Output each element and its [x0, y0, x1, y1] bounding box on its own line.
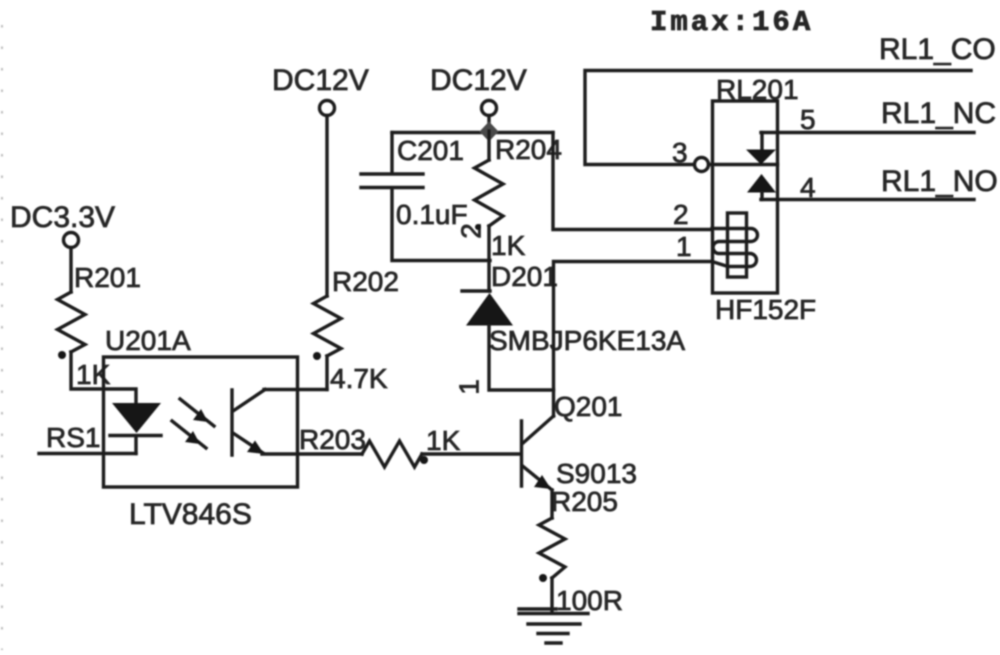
- junction dot R203 right: [420, 456, 428, 464]
- power port DC12V (left) circle: [320, 101, 335, 116]
- wire R201 to U201A anode: [71, 352, 136, 403]
- capacitor C201 lower lead and bottom wire: [392, 189, 490, 261]
- ground bar 1: [519, 612, 588, 615]
- svg-text:1K: 1K: [426, 425, 461, 456]
- wire DC3.3V to R201: [69, 248, 72, 293]
- svg-text:RL1_CO: RL1_CO: [879, 33, 996, 66]
- svg-text:Imax:16A: Imax:16A: [650, 6, 813, 39]
- svg-text:RL1_NC: RL1_NC: [881, 97, 996, 130]
- net wire RL1_NC (pin 5): [761, 131, 974, 134]
- svg-text:100R: 100R: [556, 585, 623, 616]
- net wire RL1_NO (pin 4): [761, 198, 974, 201]
- svg-text:1: 1: [454, 379, 485, 395]
- transistor Q201 emitter arrow head: [534, 475, 551, 489]
- opto collector wire to R202 node: [264, 388, 327, 391]
- svg-text:4.7K: 4.7K: [330, 363, 388, 394]
- resistor R205 body: [539, 518, 565, 578]
- light arrow 2 head: [185, 431, 200, 444]
- opto emitter arrow head: [247, 441, 264, 455]
- svg-text:1K: 1K: [491, 230, 526, 261]
- relay NC contact triangle: [746, 150, 776, 165]
- relay NO contact triangle: [747, 174, 776, 193]
- svg-text:LTV846S: LTV846S: [129, 498, 252, 531]
- svg-text:HF152F: HF152F: [715, 294, 816, 325]
- light arrow 1 shaft: [180, 399, 214, 426]
- svg-text:R203: R203: [299, 424, 366, 455]
- ground bar 2: [528, 622, 580, 625]
- transistor Q201 emitter diagonal: [523, 466, 553, 490]
- resistor R203 body: [362, 441, 422, 467]
- svg-text:3: 3: [672, 137, 688, 168]
- svg-text:S9013: S9013: [556, 458, 637, 489]
- opto emitter diagonal: [233, 433, 263, 453]
- svg-text:R205: R205: [551, 486, 618, 517]
- diode D201 cathode bar: [462, 289, 490, 292]
- capacitor C201 plate bottom: [361, 186, 423, 189]
- svg-text:DC3.3V: DC3.3V: [10, 201, 115, 234]
- light arrow 1 head: [193, 409, 208, 422]
- scan artifact left edge: [1, 25, 3, 650]
- junction dot R205 bottom: [539, 574, 547, 582]
- opto LED triangle: [112, 403, 161, 433]
- svg-text:RS1: RS1: [46, 422, 100, 453]
- wire R202 to opto collector: [325, 356, 328, 390]
- transistor Q201 base bar: [520, 421, 523, 486]
- capacitor C201 top wire: [392, 131, 553, 134]
- relay coil winding: [712, 229, 758, 267]
- relay pin 3 bubble: [695, 158, 709, 172]
- svg-text:D201: D201: [491, 261, 558, 292]
- resistor R201 body: [58, 292, 86, 352]
- wire R204 to D201: [487, 226, 490, 291]
- transistor Q201 collector diagonal: [523, 416, 554, 444]
- capacitor C201 plate top: [361, 172, 423, 175]
- wire Q201 emitter to R205: [550, 490, 553, 518]
- wire R203 to Q201 base: [422, 452, 520, 455]
- svg-text:1: 1: [676, 231, 692, 262]
- ground bar 4: [546, 641, 561, 644]
- svg-text:4: 4: [800, 172, 816, 203]
- wire D201 anode down and right: [489, 326, 554, 391]
- svg-text:1K: 1K: [76, 359, 111, 390]
- relay coil rectangle: [728, 213, 747, 277]
- net wire RL1_CO loop: [585, 71, 971, 165]
- resistor R204 body: [475, 160, 504, 226]
- svg-text:R202: R202: [332, 266, 399, 297]
- opto collector diagonal: [233, 390, 265, 412]
- junction diamond at DC12V node: [480, 122, 499, 142]
- wire opto emitter to R203: [262, 452, 362, 455]
- power port DC3.3V circle: [64, 233, 79, 248]
- wire LED cathode down: [134, 437, 137, 454]
- wire junction to R204: [487, 131, 490, 160]
- wire R205 to ground: [550, 578, 553, 613]
- relay RL201 box: [713, 101, 778, 293]
- svg-text:Q201: Q201: [554, 391, 623, 422]
- wire upper bus DC12V node to relay pin 2: [553, 133, 712, 230]
- ground bar 3: [538, 632, 568, 635]
- wire DC12V to R202: [325, 116, 328, 297]
- resistor R202 body: [314, 296, 342, 356]
- junction dot R201 bottom: [58, 351, 66, 359]
- relay NO contact stub: [760, 193, 763, 200]
- diode D201 triangle: [466, 293, 513, 326]
- relay contact arm: [709, 163, 778, 166]
- opto phototransistor base bar: [230, 390, 233, 455]
- wire DC12V to junction: [487, 116, 490, 132]
- junction dot R202 bottom: [313, 352, 321, 360]
- svg-text:5: 5: [800, 104, 816, 135]
- opto U201A box: [104, 357, 298, 487]
- svg-text:R201: R201: [74, 262, 141, 293]
- relay NC contact stub: [760, 133, 763, 151]
- capacitor C201 upper lead: [390, 133, 393, 174]
- power port DC12V (right) circle: [482, 101, 497, 116]
- wire relay pin 1 to collector bus: [554, 262, 713, 417]
- net RS1 wire: [39, 452, 136, 455]
- junction dot near R204 bottom: [475, 224, 481, 230]
- svg-text:DC12V: DC12V: [272, 64, 369, 97]
- svg-text:DC12V: DC12V: [430, 64, 527, 97]
- svg-text:2: 2: [456, 223, 487, 239]
- underline left of 100R: [519, 607, 556, 610]
- svg-text:U201A: U201A: [105, 325, 191, 356]
- light arrow 2 shaft: [172, 421, 206, 448]
- svg-text:2: 2: [673, 199, 689, 230]
- svg-text:C201: C201: [397, 135, 464, 166]
- opto LED cathode bar: [110, 434, 161, 437]
- svg-text:RL1_NO: RL1_NO: [881, 165, 998, 198]
- svg-text:SMBJP6KE13A: SMBJP6KE13A: [489, 325, 685, 356]
